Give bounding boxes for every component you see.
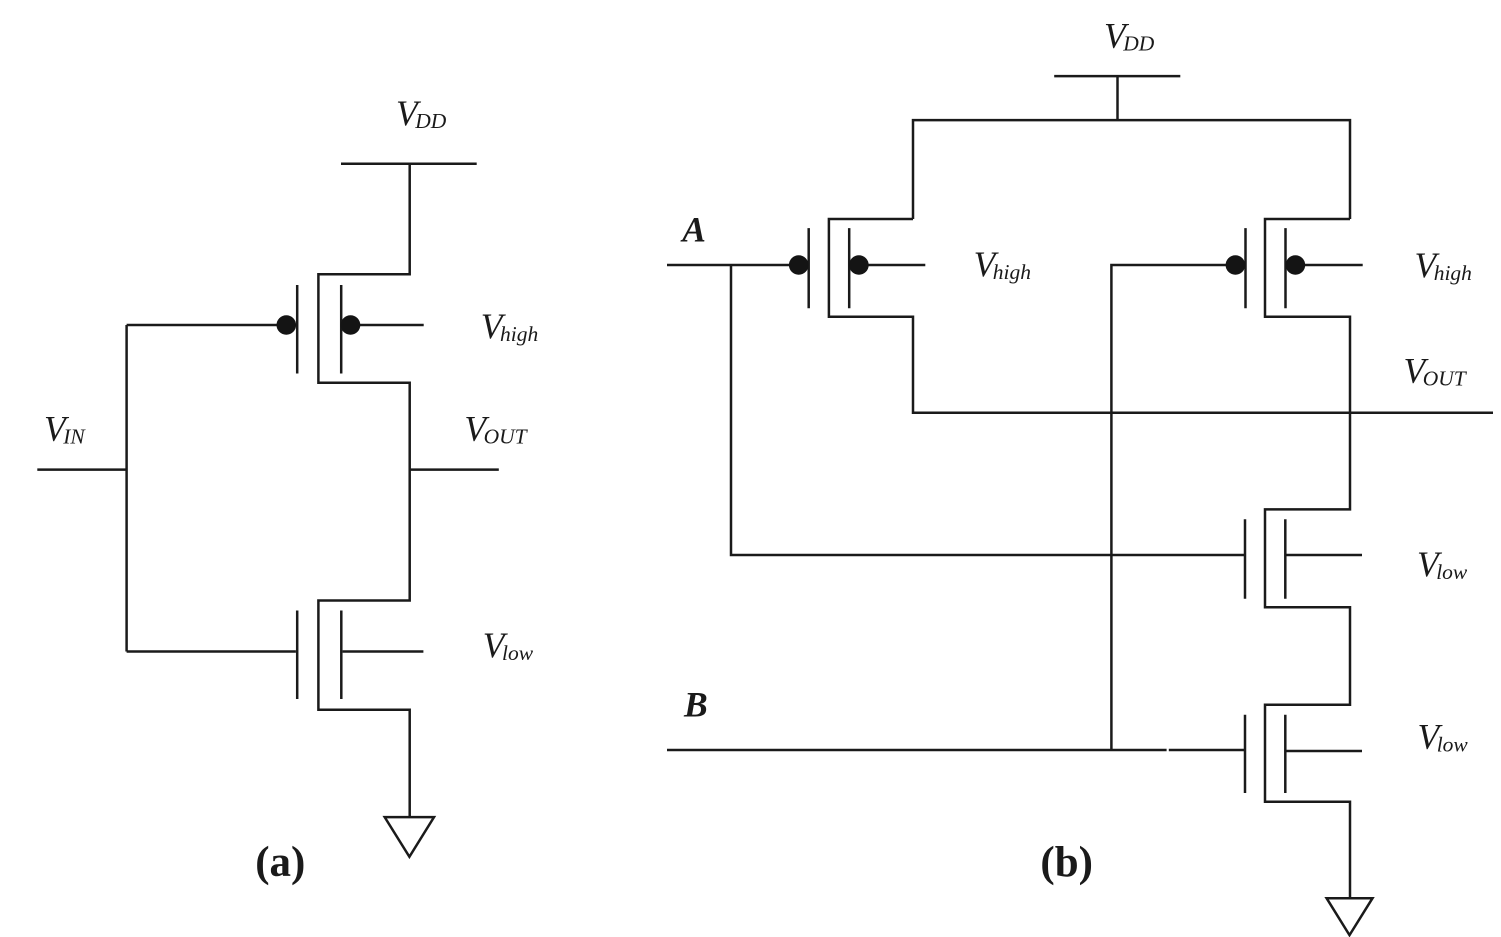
svg-text:(b): (b)	[1040, 839, 1093, 886]
svg-text:(a): (a)	[255, 839, 305, 886]
svg-text:A: A	[680, 210, 706, 250]
svg-text:B: B	[683, 684, 708, 724]
